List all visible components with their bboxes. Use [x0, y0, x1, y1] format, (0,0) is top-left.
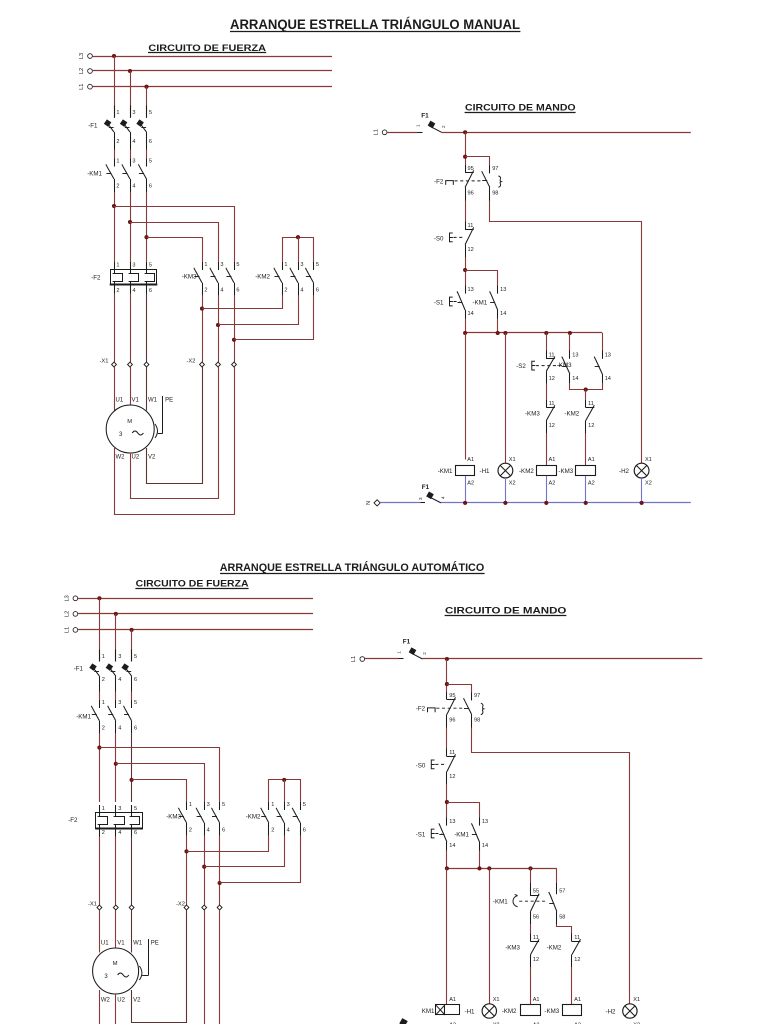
svg-text:6: 6 — [149, 139, 152, 145]
thermal overload -F2 — [91, 262, 157, 294]
svg-text:97: 97 — [474, 693, 480, 699]
node bus S2 — [544, 331, 548, 335]
svg-text:5: 5 — [149, 263, 152, 269]
title circuito de fuerza — [148, 43, 266, 54]
terminal strip -X1 — [99, 359, 148, 367]
svg-text:11: 11 — [574, 935, 580, 941]
wire KM2nc to KM3 coil lower — [571, 967, 573, 1004]
svg-text:-F2: -F2 — [91, 275, 101, 282]
svg-text:1: 1 — [116, 263, 119, 269]
node bus timer lower — [528, 866, 532, 870]
wire H2 X2 — [641, 478, 643, 503]
svg-text:4: 4 — [132, 184, 135, 190]
svg-text:1: 1 — [284, 262, 287, 268]
svg-text:4: 4 — [118, 725, 121, 731]
svg-text:12: 12 — [449, 774, 455, 780]
svg-text:3: 3 — [207, 802, 210, 808]
supply wire L1 lower — [78, 629, 313, 631]
svg-text:98: 98 — [474, 718, 480, 724]
wire control bus lower — [447, 868, 557, 870]
svg-text:-KM2: -KM2 — [547, 945, 562, 952]
svg-text:-KM1: -KM1 — [76, 714, 91, 721]
svg-text:97: 97 — [492, 166, 498, 172]
wire branch to 97 — [465, 157, 489, 166]
wire KM3 pin4 down lower — [204, 836, 206, 905]
wire KM2 mid drop lower — [284, 780, 286, 802]
svg-text:-X1: -X1 — [99, 359, 108, 365]
svg-text:L1: L1 — [65, 627, 71, 633]
junction L3 — [112, 54, 116, 58]
wire KM2 pin2 tie lower — [187, 836, 269, 852]
svg-text:3: 3 — [287, 802, 290, 808]
svg-text:2: 2 — [116, 139, 119, 145]
svg-text:CIRCUITO DE MANDO: CIRCUITO DE MANDO — [465, 102, 576, 113]
svg-text:1: 1 — [416, 124, 421, 127]
svg-text:6: 6 — [222, 827, 225, 833]
wire main drop lower — [446, 659, 448, 692]
supply wire L2 — [93, 70, 332, 72]
svg-text:3: 3 — [300, 262, 303, 268]
svg-text:5: 5 — [134, 654, 137, 660]
node KM3-KM2 tie b — [216, 323, 220, 327]
wire S1-bus lower — [446, 851, 448, 869]
wire X1-motor W1 lower — [131, 910, 133, 953]
svg-text:-KM3: -KM3 — [505, 945, 520, 952]
terminal strip -X2 lower — [176, 902, 222, 910]
svg-text:M: M — [127, 419, 132, 425]
node KM3-KM2 tie c — [232, 338, 236, 342]
svg-text:5: 5 — [303, 802, 306, 808]
wire X2 down b lower — [204, 910, 206, 1025]
wire 98 branch to H2 lower — [472, 728, 630, 1005]
svg-text:U2: U2 — [132, 455, 140, 461]
node bus S1 — [463, 331, 467, 335]
svg-text:-S1: -S1 — [434, 300, 444, 307]
svg-text:6: 6 — [149, 184, 152, 190]
node tie b lower — [202, 865, 206, 869]
node N H2 — [640, 501, 644, 505]
wire branch 97 lower — [447, 685, 472, 693]
svg-text:CIRCUITO DE MANDO: CIRCUITO DE MANDO — [445, 605, 567, 616]
svg-text:A2: A2 — [549, 480, 556, 486]
svg-text:-X2: -X2 — [186, 359, 195, 365]
svg-text:-H1: -H1 — [480, 468, 491, 475]
svg-text:-KM2: -KM2 — [255, 274, 270, 281]
wire 98 branch to H2 — [490, 201, 642, 464]
svg-text:-KM1: -KM1 — [493, 898, 508, 905]
svg-text:1: 1 — [102, 806, 105, 812]
svg-text:2: 2 — [441, 125, 446, 128]
svg-text:2: 2 — [271, 827, 274, 833]
svg-text:1: 1 — [116, 110, 119, 116]
coil -KM2 lower — [502, 997, 541, 1028]
svg-text:1: 1 — [189, 802, 192, 808]
svg-text:11: 11 — [449, 750, 455, 756]
wire F1-KM1 c lower — [131, 692, 133, 701]
node KM3-KM2 tie a — [200, 307, 204, 311]
svg-text:CIRCUITO DE FUERZA: CIRCUITO DE FUERZA — [136, 578, 249, 589]
node bus H1 — [503, 331, 507, 335]
wire S0 to S1 — [465, 257, 467, 286]
wire KM3 pin6 down lower — [219, 836, 221, 905]
wire S1 to bus — [465, 319, 467, 334]
svg-text:1: 1 — [116, 159, 119, 165]
svg-text:4: 4 — [287, 827, 290, 833]
supply wire L2 lower — [78, 613, 313, 615]
wire H1 X2 — [505, 478, 507, 503]
terminal strip -X2 — [186, 359, 236, 367]
terminal L2 lower — [65, 611, 78, 617]
svg-text:-KM1: -KM1 — [438, 468, 453, 475]
wire N line — [441, 502, 691, 504]
circuit breaker -F1 — [88, 106, 152, 150]
wire KM3 pin2 down lower — [186, 836, 188, 905]
svg-text:A1: A1 — [588, 457, 595, 463]
wire X1 to motor W1 — [146, 367, 148, 411]
svg-text:12: 12 — [574, 957, 580, 963]
fuse F1 control — [416, 113, 447, 133]
svg-text:PE: PE — [165, 398, 173, 404]
auxiliary contact -KM3 13-14 — [562, 351, 579, 384]
wire branch to KM3 pin1 — [147, 238, 203, 263]
svg-text:12: 12 — [588, 423, 594, 429]
wire F1-KM1 a lower — [99, 692, 101, 701]
wire F1 to KM1 b — [130, 150, 132, 159]
node N H1 — [503, 501, 507, 505]
wire KM2 pin4 to tie — [218, 296, 299, 325]
svg-text:-KM3: -KM3 — [182, 274, 197, 281]
svg-text:-S2: -S2 — [516, 363, 526, 370]
svg-text:-F2: -F2 — [416, 706, 426, 713]
svg-text:-KM2: -KM2 — [564, 411, 579, 418]
wire F2-X1 b lower — [115, 837, 117, 906]
node branch L3-KM3 — [112, 204, 116, 208]
svg-text:KM1: KM1 — [422, 1008, 435, 1015]
wire KM1 down b lower — [115, 734, 117, 802]
svg-text:56: 56 — [533, 915, 539, 921]
svg-text:U1: U1 — [116, 398, 124, 404]
svg-text:2: 2 — [116, 288, 119, 294]
title circuito de mando lower — [445, 605, 567, 616]
svg-text:V1: V1 — [117, 941, 125, 947]
svg-text:13: 13 — [605, 352, 611, 358]
auxiliary contact -KM2 NC lower — [547, 934, 581, 968]
svg-text:5: 5 — [149, 110, 152, 116]
svg-text:L2: L2 — [79, 68, 85, 74]
wire KM1 down a — [114, 192, 116, 262]
svg-text:96: 96 — [468, 191, 474, 197]
svg-text:12: 12 — [549, 423, 555, 429]
svg-text:1: 1 — [271, 802, 274, 808]
svg-text:13: 13 — [572, 352, 578, 358]
svg-text:A1: A1 — [467, 457, 474, 463]
wire F2-X1 c lower — [131, 837, 133, 906]
wire bus to H1 lower — [489, 868, 491, 1004]
timed contact -KM1 55-56 57-58 — [493, 883, 566, 924]
svg-text:14: 14 — [500, 311, 506, 317]
circuit breaker -F1 lower — [74, 650, 137, 692]
wire KM1 down c — [146, 192, 148, 262]
wire F2 to X1 c — [146, 294, 148, 363]
auxiliary contact -KM3 NC lower — [505, 934, 539, 968]
wire L2 drop — [130, 71, 132, 118]
svg-text:1: 1 — [397, 651, 402, 654]
svg-text:1: 1 — [102, 700, 105, 706]
svg-text:6: 6 — [134, 725, 137, 731]
svg-text:6: 6 — [134, 830, 137, 836]
node bus KM1aux — [496, 331, 500, 335]
pushbutton -S1 NO lower — [416, 818, 456, 851]
wire branch to KM3 pin5 — [114, 207, 235, 263]
node main top lower — [445, 657, 449, 661]
svg-text:12: 12 — [533, 957, 539, 963]
node branch L1-KM3 — [144, 235, 148, 239]
svg-text:W2: W2 — [101, 998, 111, 1004]
svg-text:4: 4 — [132, 288, 135, 294]
wire L3 drop lower — [99, 598, 101, 661]
svg-text:3: 3 — [118, 700, 121, 706]
wire control line1 lower — [423, 658, 703, 660]
wire motor V2 loop lower — [132, 910, 187, 1023]
wire bus to KM1 coil — [465, 333, 467, 460]
svg-text:2: 2 — [204, 287, 207, 293]
svg-text:A1: A1 — [533, 997, 540, 1003]
wire branch to KM3 pin3 — [130, 223, 219, 263]
terminal strip -X1 lower — [88, 902, 134, 910]
wire KM3 pin2 down — [202, 296, 204, 362]
contactor -KM1 power lower — [76, 700, 137, 734]
svg-text:12: 12 — [549, 376, 555, 382]
thermal aux -F2 lower — [416, 692, 484, 728]
svg-text:ARRANQUE ESTRELLA TRIÁNGULO MA: ARRANQUE ESTRELLA TRIÁNGULO MANUAL — [230, 17, 520, 32]
svg-text:6: 6 — [303, 827, 306, 833]
svg-text:2: 2 — [116, 184, 119, 190]
wire KM1 A2 — [465, 476, 467, 503]
svg-text:6: 6 — [236, 287, 239, 293]
wire branch to KM1aux — [465, 271, 497, 286]
auxiliary contact -KM3 NC 11-12 — [525, 400, 555, 433]
svg-text:-H2: -H2 — [606, 1009, 617, 1016]
coil -KM1 — [438, 457, 475, 486]
wire 96 to S0 — [465, 201, 467, 222]
contactor -KM3 power lower — [166, 802, 225, 836]
svg-text:3: 3 — [418, 497, 423, 500]
svg-text:U2: U2 — [117, 998, 125, 1004]
svg-text:4: 4 — [300, 287, 303, 293]
wire N left — [380, 502, 420, 504]
contactor -KM2 power contacts — [255, 262, 319, 296]
svg-text:-F1: -F1 — [74, 666, 84, 673]
svg-text:2: 2 — [102, 677, 105, 683]
wire KM1 down c lower — [131, 734, 133, 802]
svg-text:-KM3: -KM3 — [557, 362, 572, 369]
wire L1 to F1 — [387, 132, 417, 134]
svg-text:11: 11 — [549, 401, 555, 407]
wire control bus — [465, 332, 602, 334]
wire branch KM3 pin3 lower — [116, 764, 205, 803]
node KM2 bridge lower — [282, 778, 286, 782]
wire 58 to KM2nc lower — [557, 924, 572, 933]
wire KM3 A2 — [585, 476, 587, 503]
pushbutton -S2 NC — [516, 351, 564, 384]
wire bus corner to 57 lower — [556, 868, 558, 883]
wire L1 drop — [146, 87, 148, 118]
svg-text:3: 3 — [132, 263, 135, 269]
svg-text:5: 5 — [134, 806, 137, 812]
svg-text:3: 3 — [118, 806, 121, 812]
svg-text:5: 5 — [236, 262, 239, 268]
svg-text:3: 3 — [132, 159, 135, 165]
svg-text:-KM1: -KM1 — [472, 300, 487, 307]
wire KM1aux-bus lower — [479, 851, 481, 869]
svg-text:-KM2: -KM2 — [519, 468, 534, 475]
svg-text:L1: L1 — [351, 656, 357, 662]
wire L1-F1 lower — [365, 658, 399, 660]
svg-text:5: 5 — [222, 802, 225, 808]
node KM2 bridge — [296, 235, 300, 239]
svg-text:13: 13 — [482, 819, 488, 825]
node branch 97 lower — [445, 682, 449, 686]
wire branch KM1aux lower — [447, 803, 480, 818]
svg-text:-H1: -H1 — [465, 1009, 476, 1016]
svg-text:13: 13 — [468, 287, 474, 293]
svg-text:-KM1: -KM1 — [454, 832, 469, 839]
node N KM3 — [584, 501, 588, 505]
wire F2 to X1 b — [130, 294, 132, 363]
node branch KM1aux lower — [445, 800, 449, 804]
wire F1-KM1 b lower — [115, 692, 117, 701]
node bus KM1aux lower — [477, 866, 481, 870]
pushbutton -S0 NC lower — [416, 749, 456, 785]
motor M 3~ lower — [93, 939, 159, 1004]
svg-text:W1: W1 — [148, 398, 158, 404]
wire X1 to motor V1 — [130, 367, 132, 406]
node branch L3-KM3 lower — [97, 746, 101, 750]
node aux bridge — [584, 388, 588, 392]
wire KM1 down b — [130, 192, 132, 262]
svg-text:-KM3: -KM3 — [544, 1008, 559, 1015]
wire KM3nc to KM2 coil lower — [530, 967, 532, 1004]
svg-text:F1: F1 — [422, 484, 430, 491]
wire L2 drop lower — [115, 614, 117, 662]
svg-text:2: 2 — [284, 287, 287, 293]
lamp -H2 lower — [606, 997, 641, 1028]
wire branch KM3 pin1 lower — [132, 780, 187, 803]
junction L2 — [128, 69, 132, 73]
svg-text:V2: V2 — [133, 998, 141, 1004]
svg-text:-KM3: -KM3 — [166, 814, 181, 821]
coil -KM3 — [558, 457, 595, 486]
svg-text:4: 4 — [220, 287, 223, 293]
svg-text:N: N — [366, 501, 372, 505]
title — [230, 17, 520, 32]
junction L2 lower — [114, 612, 118, 616]
node branch 97 — [463, 155, 467, 159]
svg-text:98: 98 — [492, 191, 498, 197]
svg-text:V2: V2 — [148, 455, 156, 461]
wire S0-S1 lower — [446, 784, 448, 818]
junction L1 — [144, 85, 148, 89]
svg-text:W1: W1 — [133, 941, 143, 947]
svg-text:4: 4 — [132, 139, 135, 145]
wire KM2nc to KM3 coil — [585, 433, 587, 465]
svg-text:3: 3 — [118, 654, 121, 660]
svg-text:57: 57 — [559, 889, 565, 895]
svg-text:11: 11 — [549, 352, 555, 358]
svg-text:ARRANQUE ESTRELLA TRIÁNGULO AU: ARRANQUE ESTRELLA TRIÁNGULO AUTOMÁTICO — [220, 561, 485, 574]
auxiliary contact -KM2 NC 11-12 — [564, 400, 594, 433]
terminal L1 — [79, 84, 92, 90]
contactor -KM2 power lower — [246, 802, 306, 836]
wire KM2 bridge mid drop — [298, 237, 300, 262]
svg-text:-F2: -F2 — [68, 817, 78, 824]
svg-text:55: 55 — [533, 889, 539, 895]
wire F2 to X1 a — [114, 294, 116, 363]
svg-text:PE: PE — [151, 941, 159, 947]
svg-text:5: 5 — [149, 159, 152, 165]
node tie a lower — [184, 849, 188, 853]
svg-text:14: 14 — [449, 843, 455, 849]
wire S2 to KM3nc — [546, 384, 548, 400]
wire X1 to motor U1 — [114, 367, 116, 411]
svg-text:11: 11 — [588, 401, 594, 407]
svg-text:14: 14 — [468, 311, 474, 317]
wire control line1 — [442, 132, 691, 134]
svg-text:X1: X1 — [493, 997, 500, 1003]
svg-text:L1: L1 — [374, 129, 380, 135]
node branch L2-KM3 — [128, 220, 132, 224]
svg-text:-F1: -F1 — [88, 123, 98, 130]
node branch L1-KM3 lower — [130, 778, 134, 782]
svg-text:11: 11 — [468, 223, 474, 229]
wire 56 to KM3nc lower — [530, 924, 532, 933]
contactor -KM1 power contacts — [87, 159, 152, 193]
svg-text:-S0: -S0 — [434, 235, 444, 242]
thermal overload -F2 lower — [68, 805, 143, 837]
svg-text:58: 58 — [559, 915, 565, 921]
wire X2 down c lower — [219, 910, 221, 1025]
wire KM2 star bridge lower — [269, 780, 301, 792]
supply wire L1 — [93, 86, 332, 88]
junction L3 lower — [97, 596, 101, 600]
svg-text:96: 96 — [449, 718, 455, 724]
wire bus to KM1 coil lower — [446, 868, 448, 1004]
svg-text:A2: A2 — [588, 480, 595, 486]
wire KM2 pin2 to tie — [202, 296, 283, 309]
wire L3 drop — [114, 56, 116, 118]
svg-text:L3: L3 — [79, 53, 85, 59]
svg-text:A2: A2 — [467, 480, 474, 486]
svg-text:2: 2 — [422, 652, 427, 655]
fuse F1 neutral — [418, 484, 446, 503]
svg-text:13: 13 — [500, 287, 506, 293]
svg-text:5: 5 — [134, 700, 137, 706]
terminal L3 — [79, 53, 92, 59]
svg-text:L3: L3 — [65, 595, 71, 601]
wire KM3nc to KM2 coil — [546, 433, 548, 465]
svg-text:-S1: -S1 — [416, 832, 426, 839]
coil -KM2 — [519, 457, 556, 486]
svg-text:A1: A1 — [449, 997, 456, 1003]
svg-text:A1: A1 — [549, 457, 556, 463]
supply wire L3 lower — [78, 598, 313, 600]
node N KM1 — [463, 501, 467, 505]
wire KM2 pin1 drop lower — [268, 791, 270, 802]
svg-text:U1: U1 — [101, 941, 109, 947]
wire bus to S2 — [546, 333, 548, 351]
svg-text:5: 5 — [316, 262, 319, 268]
wire motor W2 loop — [115, 367, 235, 515]
